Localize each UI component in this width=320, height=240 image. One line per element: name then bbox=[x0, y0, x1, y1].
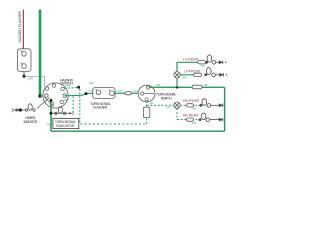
turn signal flasher unit bbox=[93, 88, 115, 99]
svg-text:INDICATOR: INDICATOR bbox=[24, 120, 39, 124]
connector LH REAR bbox=[198, 61, 206, 64]
wire switch to LH circuit bbox=[150, 86, 225, 88]
connector on LH feed bbox=[192, 85, 202, 89]
RH indicator lamp symbol bbox=[174, 102, 180, 108]
wire hazard switch to turn signal flasher bbox=[65, 93, 93, 96]
dashed wire RH riser bbox=[176, 109, 178, 120]
wire purple feed to hazard flasher bbox=[22, 10, 24, 49]
connector RH REAR bbox=[187, 118, 194, 121]
svg-text:GR: GR bbox=[192, 121, 196, 125]
svg-text:RH REAR: RH REAR bbox=[183, 113, 198, 117]
svg-text:GW: GW bbox=[64, 98, 69, 102]
wire LH riser bbox=[177, 62, 201, 87]
svg-text:LGN: LGN bbox=[132, 89, 137, 93]
svg-text:LGN: LGN bbox=[88, 89, 93, 93]
inline connector bbox=[125, 92, 132, 95]
svg-text:GW: GW bbox=[192, 107, 197, 111]
svg-text:GW: GW bbox=[89, 81, 94, 85]
svg-text:LH REAR: LH REAR bbox=[183, 57, 199, 61]
junction dot hazard switch terminal bbox=[50, 99, 53, 102]
junction dot main feed bbox=[38, 94, 41, 97]
svg-text:GW: GW bbox=[203, 83, 208, 87]
wire connector to switch bbox=[132, 92, 139, 94]
svg-text:HAZARD FLASHER: HAZARD FLASHER bbox=[18, 11, 22, 43]
svg-text:GR: GR bbox=[150, 102, 154, 105]
svg-text:LGN: LGN bbox=[28, 77, 33, 81]
svg-text:GW: GW bbox=[201, 64, 206, 68]
svg-text:RH FRONT: RH FRONT bbox=[183, 99, 200, 103]
wire flasher to connector bbox=[115, 92, 125, 94]
dashed wire along bottom to switch bbox=[80, 123, 146, 125]
svg-text:GW: GW bbox=[66, 83, 71, 87]
svg-text:LGN: LGN bbox=[117, 89, 122, 93]
svg-text:GW: GW bbox=[182, 75, 187, 79]
junction dot indicator tap bbox=[50, 112, 53, 115]
junction dot dashed bbox=[77, 86, 80, 89]
turn signal indicator label box bbox=[53, 118, 79, 128]
wire flasher to hazard switch bbox=[26, 76, 45, 87]
connector below switch bbox=[143, 107, 149, 117]
LH FRONT lamp bbox=[205, 67, 227, 76]
svg-text:GN: GN bbox=[47, 122, 51, 126]
hazard flasher unit bbox=[18, 49, 32, 72]
hazard switch bbox=[43, 83, 68, 108]
main green feed wire bbox=[39, 10, 42, 97]
svg-text:INDICATOR: INDICATOR bbox=[56, 124, 74, 128]
junction dot flasher input bbox=[85, 92, 88, 95]
svg-text:SWITCH: SWITCH bbox=[161, 97, 173, 101]
svg-text:GR: GR bbox=[166, 105, 170, 109]
junction dot flasher output bbox=[23, 75, 26, 78]
wire LH FRONT from indicator bbox=[180, 74, 201, 76]
dashed wire switch to RH FRONT bbox=[147, 104, 200, 106]
wire feed into hazard switch bbox=[40, 95, 46, 97]
dashed wire up through connector to switch bbox=[146, 101, 148, 124]
dashed wire hazard switch to junction bbox=[65, 86, 78, 89]
bottom bus wire bbox=[51, 130, 225, 132]
dashed wire indicator feed bbox=[72, 97, 74, 114]
dashed wire return down bbox=[79, 89, 81, 124]
RH FRONT lamp bbox=[200, 99, 223, 108]
turn signal switch bbox=[138, 85, 155, 102]
dashed wire RH REAR bbox=[177, 119, 199, 121]
right border wire bbox=[224, 87, 226, 131]
svg-text:LGN: LGN bbox=[62, 92, 67, 95]
svg-text:GW: GW bbox=[156, 83, 161, 87]
hazard indicator lamp bbox=[13, 104, 35, 112]
connector RH FRONT bbox=[187, 104, 194, 107]
junction dot LH riser bbox=[176, 86, 179, 89]
LH indicator lamp symbol bbox=[174, 72, 180, 78]
wire flasher bottom stub bbox=[23, 72, 25, 77]
wire hazard switch to bottom bus bbox=[50, 100, 52, 131]
hazard switch levers bbox=[37, 97, 50, 108]
RH REAR lamp bbox=[199, 113, 223, 121]
LH REAR lamp bbox=[206, 55, 227, 64]
turn signal indicator lamp bbox=[53, 107, 73, 115]
svg-text:FLASHER: FLASHER bbox=[93, 106, 108, 110]
connector LH FRONT bbox=[194, 73, 202, 76]
